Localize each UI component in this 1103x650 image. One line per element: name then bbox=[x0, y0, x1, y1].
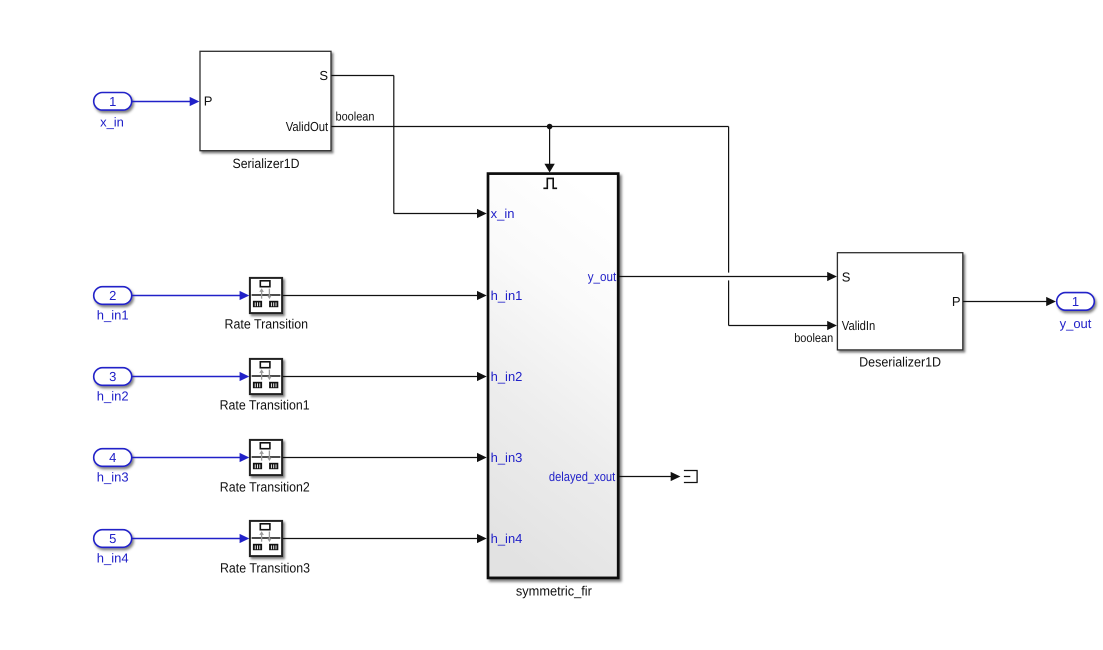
svg-text:S: S bbox=[842, 269, 851, 284]
svg-text:h_in2: h_in2 bbox=[97, 389, 129, 404]
svg-text:symmetric_fir: symmetric_fir bbox=[516, 583, 593, 598]
svg-text:x_in: x_in bbox=[491, 206, 515, 221]
svg-text:h_in3: h_in3 bbox=[97, 470, 129, 485]
svg-text:P: P bbox=[204, 94, 213, 109]
svg-text:5: 5 bbox=[109, 531, 116, 546]
svg-text:h_in1: h_in1 bbox=[97, 308, 129, 323]
svg-text:x_in: x_in bbox=[100, 115, 124, 130]
svg-text:boolean: boolean bbox=[336, 110, 375, 124]
svg-text:3: 3 bbox=[109, 369, 116, 384]
svg-text:boolean: boolean bbox=[794, 331, 833, 345]
svg-text:y_out: y_out bbox=[1060, 316, 1092, 331]
svg-text:h_in4: h_in4 bbox=[491, 531, 523, 546]
svg-text:P: P bbox=[952, 294, 961, 309]
svg-text:h_in4: h_in4 bbox=[97, 551, 129, 566]
svg-text:S: S bbox=[319, 68, 328, 83]
svg-text:1: 1 bbox=[109, 94, 116, 109]
svg-text:Rate Transition3: Rate Transition3 bbox=[220, 560, 310, 575]
svg-text:h_in1: h_in1 bbox=[491, 288, 523, 303]
svg-text:Rate Transition1: Rate Transition1 bbox=[220, 397, 310, 412]
svg-text:h_in2: h_in2 bbox=[491, 369, 523, 384]
svg-text:h_in3: h_in3 bbox=[491, 450, 523, 465]
svg-text:Rate Transition: Rate Transition bbox=[225, 316, 309, 331]
svg-text:ValidIn: ValidIn bbox=[842, 318, 876, 333]
svg-text:ValidOut: ValidOut bbox=[286, 119, 329, 134]
svg-text:4: 4 bbox=[109, 450, 116, 465]
svg-text:y_out: y_out bbox=[588, 269, 617, 284]
svg-text:delayed_xout: delayed_xout bbox=[549, 469, 616, 484]
svg-text:Serializer1D: Serializer1D bbox=[233, 156, 300, 171]
svg-text:1: 1 bbox=[1072, 294, 1079, 309]
svg-text:Rate Transition2: Rate Transition2 bbox=[220, 479, 310, 494]
svg-text:2: 2 bbox=[109, 288, 116, 303]
svg-text:Deserializer1D: Deserializer1D bbox=[859, 354, 941, 369]
